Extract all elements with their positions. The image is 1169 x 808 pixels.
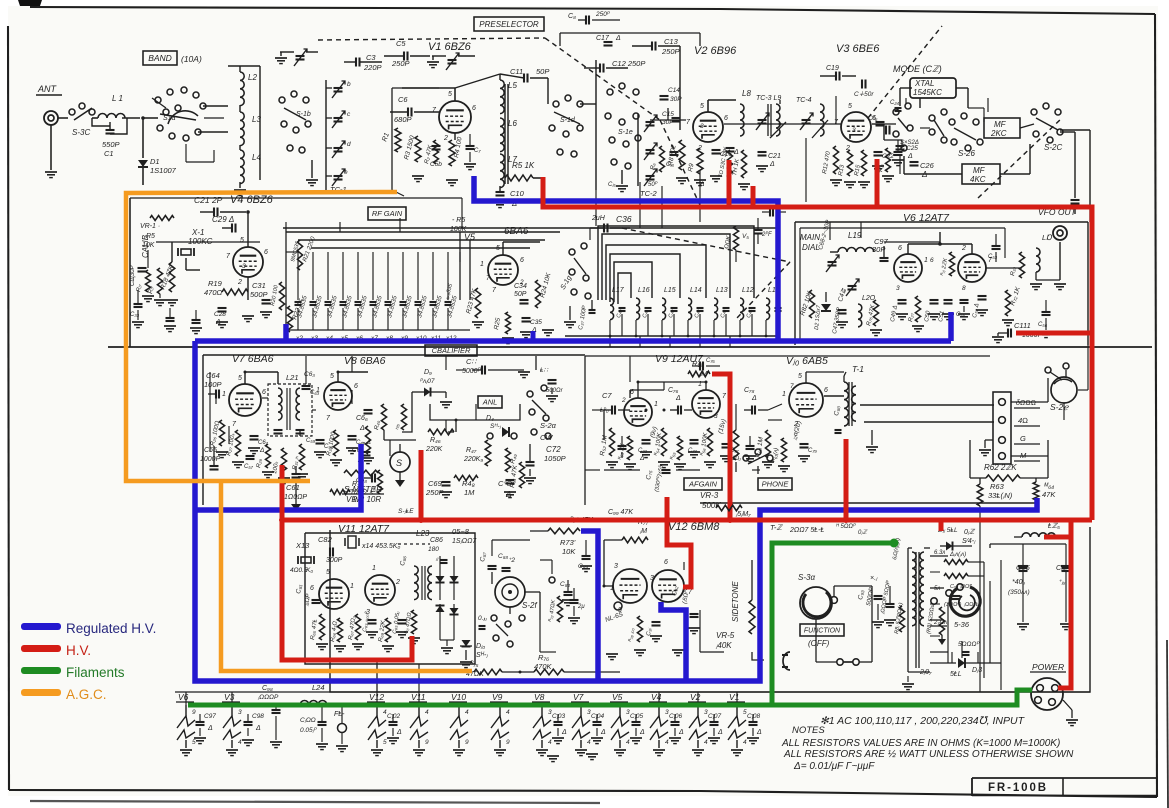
wire sidetone path bbox=[751, 560, 753, 600]
svg-text:1: 1 bbox=[480, 261, 484, 268]
diode D6 bbox=[453, 556, 455, 600]
capacitor Cⱼ08 bbox=[749, 721, 758, 723]
svg-text:50P: 50P bbox=[536, 67, 549, 76]
svg-text:Δ= 0.01/μF Γ~μμF: Δ= 0.01/μF Γ~μμF bbox=[793, 761, 875, 772]
svg-text:1M: 1M bbox=[464, 488, 475, 497]
svg-text:220P: 220P bbox=[363, 63, 382, 72]
svg-text:C5: C5 bbox=[396, 39, 406, 48]
wire C36 top link bbox=[630, 227, 680, 229]
capacitor extra audio 2 bbox=[746, 445, 755, 447]
ground V4 left bbox=[154, 299, 166, 301]
crystal XTAL 1545KC bbox=[910, 78, 956, 98]
svg-text:R5: R5 bbox=[146, 233, 155, 240]
wire regulated HV blue top run bbox=[474, 176, 778, 341]
svg-text:C31: C31 bbox=[252, 281, 266, 290]
svg-text:R₄₇: R₄₇ bbox=[466, 447, 477, 454]
ground V2 area bbox=[676, 177, 688, 179]
capacitor C51 bbox=[944, 299, 953, 301]
svg-text:L6: L6 bbox=[508, 119, 517, 128]
switch S-2d bbox=[527, 391, 533, 397]
svg-text:3: 3 bbox=[714, 413, 718, 420]
svg-text:4: 4 bbox=[626, 739, 630, 746]
terminal strip T3 bbox=[993, 392, 1011, 464]
wire V9 plate runs bbox=[637, 382, 639, 398]
ground V5 area bbox=[472, 321, 484, 323]
svg-text:(OFF): (OFF) bbox=[808, 639, 830, 648]
capacitor C54 50P bbox=[861, 80, 863, 89]
svg-text:ANT: ANT bbox=[37, 84, 58, 94]
capacitor C52 bbox=[978, 295, 987, 297]
capacitor C22 bbox=[874, 151, 883, 153]
svg-text:FR-100B: FR-100B bbox=[988, 780, 1048, 794]
svg-text:Δ: Δ bbox=[769, 161, 775, 168]
wire vfo drops bbox=[829, 222, 831, 240]
svg-text:9: 9 bbox=[506, 739, 510, 746]
label MF 4KC bbox=[962, 164, 1000, 184]
tube V6a bbox=[894, 254, 922, 282]
capacitor C1 550P bbox=[106, 129, 115, 131]
svg-text:C35: C35 bbox=[530, 319, 542, 326]
capacitor C30 extra bbox=[166, 317, 175, 319]
svg-text:Δ: Δ bbox=[756, 729, 762, 736]
svg-text:S-1e: S-1e bbox=[618, 129, 633, 136]
wire audio inner runs bbox=[592, 409, 604, 411]
svg-text:Δ: Δ bbox=[615, 35, 621, 42]
resistor R82 10K bbox=[809, 290, 814, 318]
svg-text:V4 6BZ6: V4 6BZ6 bbox=[230, 194, 274, 206]
tube V12 pentode bbox=[652, 570, 684, 602]
resistor R33 1000 bbox=[333, 430, 338, 456]
resistor R68 22K bbox=[385, 618, 390, 642]
svg-text:C₉₉ 47K: C₉₉ 47K bbox=[608, 509, 633, 516]
svg-text:6: 6 bbox=[310, 585, 314, 592]
resistor R12 470K bbox=[833, 146, 838, 174]
svg-text:5: 5 bbox=[238, 375, 242, 382]
wire s1d bbox=[547, 78, 549, 104]
svg-text:4: 4 bbox=[506, 709, 510, 716]
svg-text:C₇₈: C₇₈ bbox=[744, 387, 755, 394]
resistor R3 1500 bbox=[415, 136, 421, 162]
svg-text:1: 1 bbox=[222, 391, 226, 398]
svg-text:C36: C36 bbox=[616, 214, 632, 224]
legend swatch A.G.C. bbox=[21, 689, 61, 696]
svg-text:Δ: Δ bbox=[751, 395, 757, 402]
svg-text:Cⱼ05: Cⱼ05 bbox=[630, 713, 643, 720]
wire top right border link bbox=[1074, 214, 1076, 222]
wire crystal bank top links bbox=[285, 222, 287, 228]
svg-text:9: 9 bbox=[192, 709, 196, 716]
capacitor extra audio 1 bbox=[618, 445, 627, 447]
svg-text:C₃₃: C₃₃ bbox=[638, 448, 648, 454]
resistor R25 bbox=[506, 312, 511, 334]
svg-text:VR-1 ·: VR-1 · bbox=[140, 223, 160, 230]
tube V11a bbox=[319, 579, 349, 609]
resistor R11 1K bbox=[741, 150, 746, 178]
svg-text:C61: C61 bbox=[286, 483, 300, 492]
wire heater risers bbox=[376, 660, 378, 705]
svg-text:A.G.C.: A.G.C. bbox=[66, 687, 107, 702]
svg-text:ⱼΩΩᴾⱠ: ⱼΩΩᴾⱠ bbox=[963, 601, 979, 608]
ground V1 cathode bbox=[412, 175, 424, 177]
svg-text:C14: C14 bbox=[668, 87, 680, 94]
svg-text:C26: C26 bbox=[920, 161, 935, 170]
tube V4 6BZ6 bbox=[233, 247, 263, 277]
wire riser bbox=[595, 60, 597, 190]
svg-text:2: 2 bbox=[237, 279, 242, 286]
resistor R51 47K bbox=[519, 462, 524, 488]
svg-text:S-1b: S-1b bbox=[296, 111, 311, 118]
capacitor C18 under V2 bbox=[670, 151, 679, 153]
svg-text:C25: C25 bbox=[906, 145, 918, 152]
wire V4 bbox=[247, 212, 249, 247]
node rail junction dots bbox=[284, 339, 288, 343]
svg-text:V6 12AT7: V6 12AT7 bbox=[903, 212, 950, 224]
ground V7 area bbox=[216, 451, 228, 453]
svg-text:50ᴾ: 50ᴾ bbox=[648, 181, 658, 188]
capacitor C89b 2u bbox=[570, 599, 579, 601]
svg-text:0.ⱼᵤ: 0.ⱼᵤ bbox=[478, 615, 488, 622]
capacitor Cⱼ07 bbox=[710, 721, 719, 723]
svg-text:5-36: 5-36 bbox=[954, 620, 970, 629]
svg-text:C∔50r: C∔50r bbox=[854, 91, 874, 98]
svg-text:Δ: Δ bbox=[675, 395, 681, 402]
wire x-tal bank feeds bbox=[286, 251, 298, 253]
capacitor C55 bbox=[960, 299, 969, 301]
wire red stub a bbox=[727, 160, 732, 207]
wire red stub b bbox=[751, 186, 756, 207]
svg-text:3: 3 bbox=[852, 127, 856, 134]
wire V9 grid bus bbox=[603, 410, 605, 440]
ground ANL area bbox=[440, 491, 452, 493]
ground bottom extra bbox=[902, 683, 914, 685]
svg-text:V11: V11 bbox=[411, 692, 426, 702]
svg-text:V7: V7 bbox=[573, 692, 584, 702]
svg-text:H.V.: H.V. bbox=[66, 643, 91, 658]
svg-text:1S1007: 1S1007 bbox=[150, 166, 177, 175]
capacitor C60 bbox=[316, 439, 325, 441]
resistor R72 1K bbox=[1005, 290, 1010, 316]
wire red V12 branch bbox=[667, 497, 691, 587]
svg-text:5: 5 bbox=[848, 103, 852, 110]
wire sidetone drop bbox=[535, 356, 537, 370]
node red junction rail left bbox=[279, 517, 285, 523]
resistor R4 100 bbox=[449, 140, 455, 166]
capacitor C77 10u bbox=[722, 443, 731, 445]
resistor R22 1K bbox=[287, 306, 292, 332]
resistor R16 under V3 bbox=[886, 148, 891, 172]
node red junction R59 bbox=[727, 517, 733, 523]
wire VFO mid bbox=[907, 244, 909, 254]
ground ant bbox=[45, 171, 57, 173]
svg-text:C₇: C₇ bbox=[474, 148, 481, 154]
svg-text:Δ: Δ bbox=[717, 729, 723, 736]
resistor R20 bbox=[279, 282, 284, 310]
svg-text:TC-3 L9: TC-3 L9 bbox=[756, 95, 781, 102]
capacitor Cⱼ03 bbox=[554, 721, 563, 723]
svg-text:4: 4 bbox=[587, 739, 591, 746]
capacitor C23 bbox=[876, 121, 885, 123]
svg-text:2ᴾF: 2ᴾF bbox=[761, 231, 772, 238]
resistor R56 100K bbox=[707, 428, 712, 456]
svg-text:S×S2Δ: S×S2Δ bbox=[900, 140, 919, 146]
wire IF section box bbox=[203, 354, 585, 356]
svg-text:6: 6 bbox=[520, 257, 524, 264]
svg-text:D₉: D₉ bbox=[424, 369, 432, 376]
svg-text:V8 6BA6: V8 6BA6 bbox=[344, 355, 386, 367]
capacitor C25 Delta bbox=[896, 145, 905, 147]
capacitor C35b bbox=[432, 145, 441, 147]
resistor R2 47K bbox=[434, 140, 439, 164]
wire V2 to V3 bbox=[724, 123, 841, 125]
svg-text:6.3ʌ: 6.3ʌ bbox=[934, 550, 945, 556]
svg-text:C5b: C5b bbox=[430, 161, 442, 168]
capacitor C35 bbox=[522, 317, 531, 319]
svg-text:100P: 100P bbox=[204, 380, 222, 389]
svg-text:(10A): (10A) bbox=[181, 54, 202, 64]
capacitor C49 bbox=[898, 299, 907, 301]
resistor R21 2200 bbox=[297, 240, 302, 270]
svg-text:LⱰ: LⱰ bbox=[1042, 233, 1053, 242]
svg-text:10K: 10K bbox=[562, 547, 576, 556]
wire V5 strip bbox=[459, 232, 461, 300]
ground coil bank bbox=[564, 321, 576, 323]
diode D1 1S1007 bbox=[142, 118, 144, 158]
resistor R17b bbox=[146, 270, 151, 292]
tube V7 6BA6 bbox=[229, 384, 261, 416]
capacitor C17 bbox=[604, 41, 613, 43]
resistor R61 bbox=[781, 438, 786, 462]
svg-text:CⱼΩΩ: CⱼΩΩ bbox=[300, 717, 316, 724]
label AF GAIN bbox=[684, 478, 722, 490]
wire filament green bus bbox=[188, 690, 1032, 705]
capacitor C67 bbox=[250, 435, 259, 437]
svg-text:⁺ⱼᵤ: ⁺ⱼᵤ bbox=[1058, 579, 1066, 586]
resistor R36 100K bbox=[365, 426, 370, 454]
wire V8 out bbox=[351, 356, 353, 372]
svg-text:PHONE: PHONE bbox=[762, 480, 790, 489]
wire S2e links bbox=[1063, 403, 1065, 420]
bfo coil can bbox=[495, 577, 525, 607]
svg-text:1SⱼΩΩ7: 1SⱼΩΩ7 bbox=[452, 538, 477, 545]
node junction bbox=[141, 116, 145, 120]
switch S-1e wafer bbox=[607, 89, 613, 95]
label MF 2KC bbox=[984, 118, 1020, 138]
svg-text:L14: L14 bbox=[690, 287, 702, 294]
svg-text:Regulated H.V.: Regulated H.V. bbox=[66, 621, 156, 636]
wire red power drop bbox=[1058, 520, 1071, 688]
svg-text:MAIN: MAIN bbox=[800, 233, 820, 242]
svg-text:C69: C69 bbox=[428, 479, 443, 488]
svg-text:L12: L12 bbox=[742, 287, 754, 294]
svg-text:Cⱼ02: Cⱼ02 bbox=[387, 713, 400, 720]
capacitor C95 bbox=[952, 595, 961, 597]
ground V12 area bbox=[606, 653, 618, 655]
svg-text:4: 4 bbox=[665, 739, 669, 746]
potentiometer VR-5 140K bbox=[749, 600, 755, 634]
wire blue R74 feed bbox=[581, 531, 598, 681]
svg-text:L17: L17 bbox=[612, 287, 625, 294]
svg-text:C₈₄: C₈₄ bbox=[560, 581, 570, 588]
wire S1e to V2 bbox=[650, 119, 686, 121]
capacitor C5 250P bbox=[403, 52, 405, 61]
wire V5 strip left border bbox=[285, 228, 287, 330]
wire ANL frame bbox=[402, 392, 412, 432]
ground V10 area bbox=[762, 461, 774, 463]
svg-text:S-2ℯ: S-2ℯ bbox=[1050, 402, 1069, 412]
wire red left loop bbox=[282, 465, 412, 660]
connector POWER plug bbox=[1031, 678, 1063, 710]
svg-text:2ΩΩ7 5Ⱡ-Ⱡ: 2ΩΩ7 5Ⱡ-Ⱡ bbox=[789, 527, 824, 534]
svg-text:6: 6 bbox=[472, 105, 476, 112]
svg-text:Δ: Δ bbox=[639, 455, 644, 462]
wire heater link risers 2 bbox=[418, 692, 420, 705]
svg-text:S-3α: S-3α bbox=[798, 573, 815, 582]
ground heater V5 bbox=[614, 749, 626, 751]
svg-text:C21: C21 bbox=[768, 153, 781, 160]
ground VFO bbox=[836, 321, 848, 323]
meter S bbox=[390, 452, 410, 472]
svg-text:C²₆: C²₆ bbox=[868, 115, 878, 122]
svg-text:C₇₉: C₇₉ bbox=[808, 448, 817, 454]
svg-text:2KC: 2KC bbox=[990, 129, 1007, 138]
svg-text:X13: X13 bbox=[295, 541, 310, 550]
wire filter bbox=[990, 543, 1066, 545]
svg-text:Δ: Δ bbox=[359, 425, 365, 432]
resistor R6 under V2 bbox=[660, 146, 665, 172]
svg-text:Δ: Δ bbox=[733, 149, 739, 156]
wire heater drop V12 bbox=[376, 664, 378, 692]
node red junction V12 bbox=[664, 517, 670, 523]
resistor R71 22K bbox=[949, 252, 954, 276]
svg-text:3: 3 bbox=[896, 285, 900, 292]
tube V12 triode bbox=[613, 569, 647, 603]
svg-text:5: 5 bbox=[496, 245, 500, 252]
svg-text:Δ: Δ bbox=[561, 729, 567, 736]
wire blue stub R22 bbox=[283, 324, 289, 341]
wire crystal bank bus bbox=[286, 231, 560, 233]
wire coil bank bottom bus bbox=[565, 335, 778, 337]
wire VFO outputs bbox=[986, 267, 1022, 269]
svg-text:4KC: 4KC bbox=[970, 175, 986, 184]
resistor R13 27K bbox=[847, 150, 852, 176]
wire BFO feeds bbox=[491, 540, 493, 556]
svg-text:4: 4 bbox=[425, 709, 429, 716]
svg-text:CW: CW bbox=[540, 433, 553, 442]
switch S-1d bbox=[553, 101, 559, 107]
svg-text:L2: L2 bbox=[248, 73, 257, 82]
svg-text:R73’: R73’ bbox=[560, 538, 576, 547]
switch label BAND (10A) bbox=[143, 51, 177, 65]
svg-text:2μH: 2μH bbox=[591, 215, 606, 222]
svg-text:(350ʌʌ): (350ʌʌ) bbox=[1008, 589, 1030, 596]
svg-text:ᴿ₇₅: ᴿ₇₅ bbox=[470, 661, 479, 668]
svg-text:Sᴴ-ⱼ: Sᴴ-ⱼ bbox=[490, 423, 502, 430]
capacitor C47 350P bbox=[838, 309, 847, 311]
connector VFO OUT J2 bbox=[1053, 226, 1067, 240]
trimmer TC-1 stack bbox=[334, 87, 343, 89]
svg-text:7: 7 bbox=[790, 383, 794, 390]
diode D13 SGL bbox=[930, 662, 956, 664]
svg-text:180: 180 bbox=[428, 546, 439, 553]
capacitor C21d bbox=[726, 147, 735, 149]
wire power section box bbox=[330, 527, 1090, 692]
switch S-1a wafer bbox=[155, 97, 161, 103]
label FUNCTION (OFF) bbox=[800, 624, 844, 636]
wire red T-1 feed bbox=[844, 439, 849, 520]
svg-text:V6: V6 bbox=[178, 692, 189, 702]
svg-text:C7: C7 bbox=[602, 391, 612, 400]
capacitor C57 in V7 box bbox=[246, 455, 255, 457]
capacitor C28 bbox=[218, 307, 227, 309]
ground heater V12 bbox=[371, 749, 383, 751]
capacitor C6 680P bbox=[407, 108, 409, 117]
svg-text:6: 6 bbox=[264, 249, 268, 256]
ground diode bridge bbox=[441, 647, 453, 649]
diode D8 bbox=[450, 608, 459, 615]
ground V9 area bbox=[606, 461, 618, 463]
capacitor C21 bbox=[758, 151, 767, 153]
capacitor C59 bbox=[274, 429, 283, 431]
svg-text:9: 9 bbox=[425, 739, 429, 746]
svg-text:POWER: POWER bbox=[1032, 662, 1064, 672]
svg-text:6: 6 bbox=[262, 389, 266, 396]
svg-text:ALL RESISTORS ARE ½ WATT: ALL RESISTORS ARE ½ WATT UNLESS OTHERWIS… bbox=[783, 749, 1074, 760]
switch extra band contacts bbox=[163, 109, 169, 115]
svg-text:1: 1 bbox=[924, 257, 928, 264]
svg-text:8: 8 bbox=[962, 285, 966, 292]
wire V7 internal bbox=[228, 426, 230, 444]
resistor R81b 520ohm bbox=[939, 607, 944, 635]
capacitor C19 bbox=[835, 72, 837, 81]
svg-text:T-ℤ: T-ℤ bbox=[770, 523, 783, 532]
ground heater V3 bbox=[226, 749, 238, 751]
lamp NL-65 bbox=[614, 602, 622, 610]
ac plug bbox=[783, 652, 790, 670]
capacitor C74 bbox=[690, 439, 699, 441]
svg-text:FⱠ-: FⱠ- bbox=[334, 711, 345, 718]
wire preselector dashed boundary bbox=[318, 38, 545, 40]
svg-text:×.ⱼ: ×.ⱼ bbox=[870, 575, 878, 582]
svg-text:b: b bbox=[347, 81, 351, 88]
svg-text:C₇₆: C₇₆ bbox=[668, 387, 679, 394]
svg-text:47K: 47K bbox=[1042, 490, 1056, 499]
wire regulated HV blue left loop bbox=[195, 341, 1037, 681]
svg-text:1545KC: 1545KC bbox=[913, 88, 942, 97]
switch S-1g bbox=[569, 249, 575, 255]
svg-text:S1a: S1a bbox=[163, 115, 176, 122]
transformer T-2 primary bbox=[912, 552, 916, 626]
capacitor C97 heater bbox=[196, 721, 205, 723]
svg-text:250P: 250P bbox=[661, 47, 680, 56]
svg-text:C1: C1 bbox=[104, 149, 114, 158]
diode D5 bbox=[439, 556, 441, 600]
svg-text:5: 5 bbox=[448, 91, 452, 98]
wire anl inner extra bbox=[445, 420, 447, 432]
ground heater V9 bbox=[494, 749, 506, 751]
svg-text:3: 3 bbox=[700, 123, 704, 130]
svg-text:C10: C10 bbox=[510, 189, 525, 198]
svg-text:L5: L5 bbox=[508, 81, 517, 90]
capacitor C26 Delta bbox=[910, 161, 919, 163]
svg-text:5ⱠL: 5ⱠL bbox=[950, 671, 962, 678]
resistor R1 270K bbox=[395, 128, 401, 152]
svg-text:V7 6BA6: V7 6BA6 bbox=[232, 353, 274, 365]
resistor R29 bbox=[266, 444, 271, 468]
wire comb nest bbox=[598, 226, 754, 300]
wire v7 region extra bbox=[209, 372, 211, 452]
capacitor Cⱼ05 bbox=[632, 721, 641, 723]
svg-text:L23: L23 bbox=[416, 529, 430, 538]
